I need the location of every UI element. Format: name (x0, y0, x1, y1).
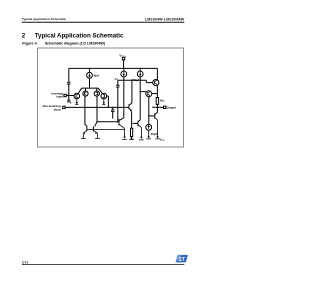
svg-text:Schematic diagram (1/2 LM2904W: Schematic diagram (1/2 LM2904W) (45, 41, 106, 45)
svg-text:Typical Application Schematic: Typical Application Schematic (22, 17, 67, 21)
svg-text:Output: Output (167, 105, 177, 109)
svg-text:VCC+: VCC+ (119, 54, 126, 59)
svg-text:input: input (54, 107, 61, 111)
svg-text:VCC-: VCC- (160, 137, 166, 142)
svg-text:Figure 4.: Figure 4. (22, 41, 37, 45)
svg-text:input: input (56, 95, 63, 99)
svg-text:LM2904W-LM2904AW: LM2904W-LM2904AW (145, 17, 185, 21)
svg-text:Typical Application Schematic: Typical Application Schematic (35, 32, 124, 39)
svg-text:100µA: 100µA (132, 78, 140, 82)
svg-text:ST: ST (178, 257, 185, 263)
svg-text:6µA: 6µA (94, 74, 100, 78)
svg-text:6/16: 6/16 (22, 260, 29, 264)
svg-text:RSC: RSC (160, 98, 165, 102)
svg-text:2: 2 (22, 32, 26, 39)
svg-text:50µA: 50µA (151, 132, 158, 136)
